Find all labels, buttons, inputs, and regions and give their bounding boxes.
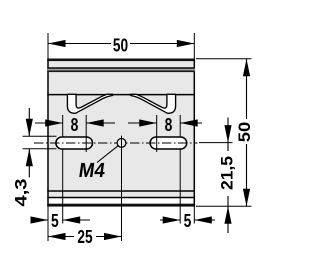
svg-text:5: 5 — [51, 211, 59, 231]
svg-text:5: 5 — [184, 211, 192, 231]
svg-text:4,3: 4,3 — [12, 179, 30, 207]
svg-text:8: 8 — [165, 115, 173, 135]
svg-text:25: 25 — [77, 227, 92, 247]
svg-text:50: 50 — [113, 36, 128, 56]
svg-text:M4: M4 — [77, 159, 107, 182]
svg-text:21,5: 21,5 — [218, 156, 236, 190]
svg-text:50: 50 — [235, 122, 254, 143]
svg-text:8: 8 — [71, 115, 79, 135]
